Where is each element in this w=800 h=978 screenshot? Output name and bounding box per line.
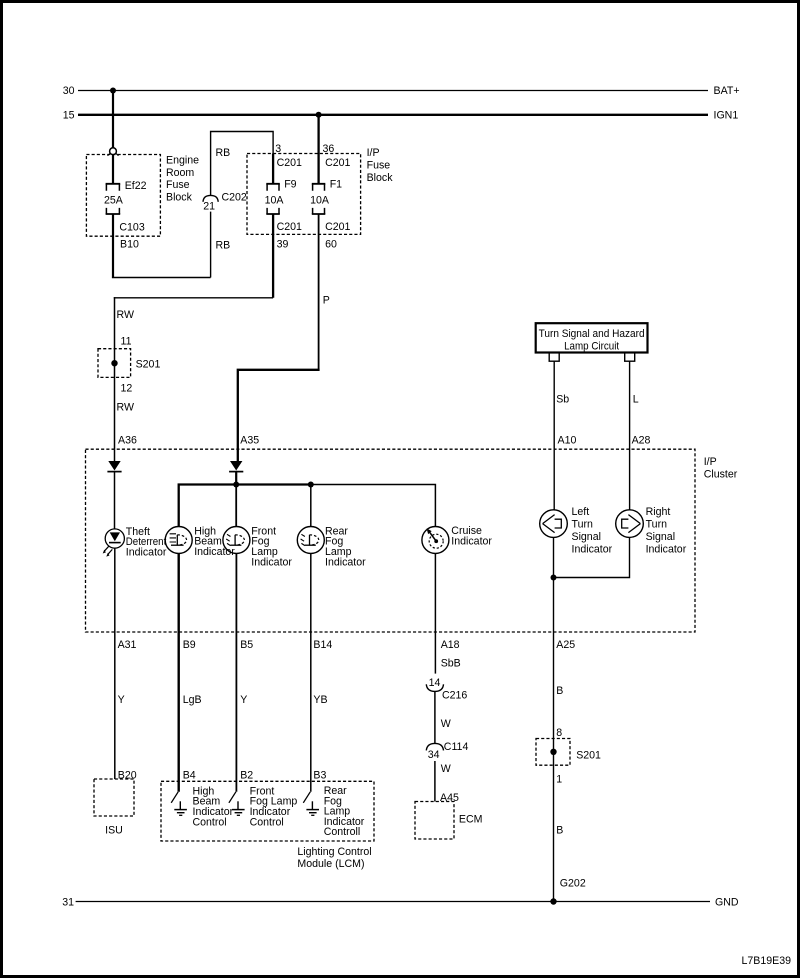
svg-text:ISU: ISU <box>105 825 123 837</box>
svg-text:Left: Left <box>572 506 590 518</box>
svg-text:10A: 10A <box>265 195 285 207</box>
svg-text:LgB: LgB <box>183 694 202 706</box>
svg-text:Ef22: Ef22 <box>125 180 147 192</box>
svg-text:Lamp Circuit: Lamp Circuit <box>564 341 619 353</box>
svg-text:C216: C216 <box>442 689 467 701</box>
wire P jog to A35 <box>238 370 320 461</box>
bus 15 IGN1 <box>63 110 739 122</box>
svg-text:Turn: Turn <box>572 518 593 530</box>
svg-text:W: W <box>441 718 451 730</box>
fuse F9 10A <box>265 179 297 214</box>
wire RB upper from C202 to F9 <box>211 132 274 196</box>
svg-text:F1: F1 <box>330 179 342 191</box>
svg-text:GND: GND <box>715 896 739 908</box>
svg-text:39: 39 <box>277 239 289 251</box>
svg-text:C201: C201 <box>325 157 350 169</box>
front fog lamp indicator <box>223 527 250 554</box>
svg-text:Indicator: Indicator <box>325 556 366 568</box>
svg-text:Fuse: Fuse <box>367 160 391 172</box>
svg-text:B9: B9 <box>183 639 196 651</box>
svg-text:A18: A18 <box>441 639 460 651</box>
svg-text:Signal: Signal <box>572 531 601 543</box>
svg-text:12: 12 <box>121 382 133 394</box>
svg-text:C201: C201 <box>277 221 302 233</box>
svg-text:A25: A25 <box>556 639 575 651</box>
svg-text:Indicator: Indicator <box>572 544 613 556</box>
wire L right turn <box>629 361 631 510</box>
svg-text:ECM: ECM <box>459 813 483 825</box>
svg-text:Cluster: Cluster <box>704 469 738 481</box>
svg-text:21: 21 <box>203 200 215 212</box>
bus 30 BAT+ <box>63 85 740 97</box>
svg-text:B: B <box>556 824 563 836</box>
wire horizontal F9 to RW drop <box>114 297 273 299</box>
svg-text:Engine: Engine <box>166 154 199 166</box>
wire rear fog drop <box>310 485 312 527</box>
svg-text:Control: Control <box>250 816 284 828</box>
Turn Signal and Hazard Lamp Circuit box <box>536 323 648 352</box>
svg-text:3: 3 <box>275 143 281 155</box>
wire W C114 to ECM <box>434 761 436 802</box>
svg-text:Turn: Turn <box>646 518 667 530</box>
svg-text:B2: B2 <box>240 770 253 782</box>
wire RW down to S201 <box>114 297 116 449</box>
svg-text:B10: B10 <box>120 238 139 250</box>
svg-text:34: 34 <box>428 749 440 761</box>
wire BAT+ drop to engine room fuse block <box>112 91 114 148</box>
fuse F1 10A <box>310 179 342 214</box>
svg-text:I/P: I/P <box>367 147 380 159</box>
indicator feed bus left (thick) <box>179 485 311 527</box>
svg-text:P: P <box>323 295 330 307</box>
svg-text:G202: G202 <box>560 878 586 890</box>
svg-text:S201: S201 <box>136 359 161 371</box>
node A35 bus <box>233 482 239 488</box>
right tab <box>625 353 635 362</box>
left turn signal indicator <box>540 510 568 538</box>
fuse Ef22 25A <box>104 180 147 214</box>
cruise indicator <box>422 527 449 554</box>
svg-text:Indicator: Indicator <box>251 556 292 568</box>
diode D1 theft deterrent <box>107 461 121 472</box>
svg-text:10A: 10A <box>310 195 330 207</box>
ISU box <box>94 779 134 837</box>
wire left turn down <box>553 537 555 901</box>
wire front fog to LCM B2 <box>235 554 237 792</box>
svg-text:60: 60 <box>325 239 337 251</box>
svg-text:RB: RB <box>216 239 231 251</box>
I/P Fuse Block box <box>247 154 361 235</box>
wire diode D2 down to front fog lamp <box>235 472 237 485</box>
svg-text:Signal: Signal <box>646 531 675 543</box>
svg-text:L: L <box>633 393 639 405</box>
svg-text:I/P: I/P <box>704 456 717 468</box>
svg-text:8: 8 <box>556 727 562 739</box>
svg-text:Block: Block <box>367 172 394 184</box>
connector C114 pin 34 <box>426 741 468 761</box>
LCM rear fog switch + ground <box>303 792 319 816</box>
theft deterrent LED indicator <box>103 529 125 557</box>
svg-text:SbB: SbB <box>441 657 461 669</box>
rear fog lamp indicator <box>297 527 324 554</box>
wire into fuse F9 <box>272 154 274 184</box>
svg-text:B4: B4 <box>183 770 196 782</box>
svg-text:S201: S201 <box>576 749 601 761</box>
svg-text:W: W <box>441 763 451 775</box>
svg-text:Fuse: Fuse <box>166 179 190 191</box>
svg-text:F9: F9 <box>284 179 296 191</box>
svg-text:36: 36 <box>323 143 335 155</box>
wire theft LED to ISU <box>114 548 116 779</box>
svg-text:IGN1: IGN1 <box>714 110 739 122</box>
svg-text:14: 14 <box>429 677 441 689</box>
connector C202 pin 21 <box>203 191 247 212</box>
LCM high beam switch + ground <box>171 792 187 816</box>
wire RB up to C202 <box>210 212 212 278</box>
diode D2 indicator feed <box>229 461 243 472</box>
wire A36 into cluster <box>114 449 116 461</box>
svg-text:Y: Y <box>118 694 125 706</box>
svg-text:A36: A36 <box>118 435 137 447</box>
svg-text:Controll: Controll <box>324 826 361 838</box>
ECM box <box>415 802 482 840</box>
svg-text:A35: A35 <box>240 435 259 447</box>
svg-text:C114: C114 <box>444 741 469 753</box>
svg-text:Right: Right <box>646 506 671 518</box>
svg-text:A45: A45 <box>440 792 459 804</box>
svg-text:Module (LCM): Module (LCM) <box>297 858 364 870</box>
wire diode D1 to theft LED <box>114 472 116 530</box>
wire B10 down from fuse <box>112 214 114 278</box>
svg-text:Y: Y <box>240 694 247 706</box>
svg-text:1: 1 <box>556 773 562 785</box>
svg-text:B14: B14 <box>313 639 332 651</box>
LCM front fog switch + ground <box>229 792 245 816</box>
wire right turn jog join <box>554 537 630 577</box>
svg-text:Lighting Control: Lighting Control <box>297 846 371 858</box>
Lighting Control Module box <box>161 781 374 841</box>
svg-text:15: 15 <box>63 110 75 122</box>
LCM caption <box>297 846 371 870</box>
wire F1 output down P <box>318 214 320 370</box>
svg-text:RW: RW <box>117 309 134 321</box>
svg-text:YB: YB <box>313 694 327 706</box>
wire into fuse Ef22 <box>112 155 114 184</box>
connector bubble at fuse block entry <box>108 148 119 156</box>
Engine Room Fuse Block box <box>86 155 160 237</box>
svg-text:A31: A31 <box>118 639 137 651</box>
svg-text:RW: RW <box>117 401 134 413</box>
svg-text:C201: C201 <box>277 157 302 169</box>
splice S201 <box>98 335 160 394</box>
svg-text:25A: 25A <box>104 194 124 206</box>
svg-text:C201: C201 <box>325 221 350 233</box>
wire F9 output down <box>272 214 274 298</box>
svg-text:A28: A28 <box>632 435 651 447</box>
wire RB horizontal B10 to C202 <box>112 277 211 279</box>
svg-text:L7B19E39: L7B19E39 <box>742 955 792 967</box>
indicator feed bus right to cruise <box>311 485 436 527</box>
connector C216 pin 14 <box>426 677 467 701</box>
svg-text:A10: A10 <box>558 435 577 447</box>
svg-text:Room: Room <box>166 167 194 179</box>
wire high beam to LCM B4 <box>177 554 179 792</box>
svg-text:Block: Block <box>166 192 193 204</box>
svg-text:Control: Control <box>193 816 227 828</box>
svg-text:B3: B3 <box>313 770 326 782</box>
node on bus 30 feeding Ef22 <box>110 88 116 94</box>
wire rear fog to LCM B3 <box>310 554 312 792</box>
svg-text:30: 30 <box>63 85 75 97</box>
svg-text:Indicator: Indicator <box>451 535 492 547</box>
svg-text:BAT+: BAT+ <box>714 85 740 97</box>
splice S201 lower <box>536 727 601 785</box>
wire W C216 to C114 <box>434 691 436 743</box>
svg-text:31: 31 <box>62 896 74 908</box>
svg-text:Turn Signal and Hazard: Turn Signal and Hazard <box>539 328 645 340</box>
svg-text:B20: B20 <box>118 770 137 782</box>
left tab <box>549 353 559 362</box>
wire Sb left turn <box>553 361 555 510</box>
svg-text:RB: RB <box>216 147 231 159</box>
right turn signal indicator <box>616 510 644 538</box>
svg-text:C202: C202 <box>222 191 247 203</box>
node on bus 15 feeding F1 <box>316 112 322 118</box>
ground G202 <box>550 878 586 905</box>
svg-text:Indicator: Indicator <box>646 544 687 556</box>
svg-text:11: 11 <box>121 335 132 347</box>
node turn join <box>551 575 557 581</box>
wire cruise to C216 <box>434 554 436 674</box>
bus 31 GND <box>62 896 739 908</box>
svg-text:Indicator: Indicator <box>126 546 167 558</box>
svg-text:B: B <box>556 685 563 697</box>
svg-text:B5: B5 <box>240 639 253 651</box>
high beam indicator lamp <box>165 527 192 554</box>
wire IGN1 into fuse F1 <box>317 115 319 184</box>
svg-text:Sb: Sb <box>556 393 569 405</box>
node rear fog bus <box>308 482 314 488</box>
svg-text:C103: C103 <box>119 221 144 233</box>
I/P Cluster box <box>86 449 696 632</box>
